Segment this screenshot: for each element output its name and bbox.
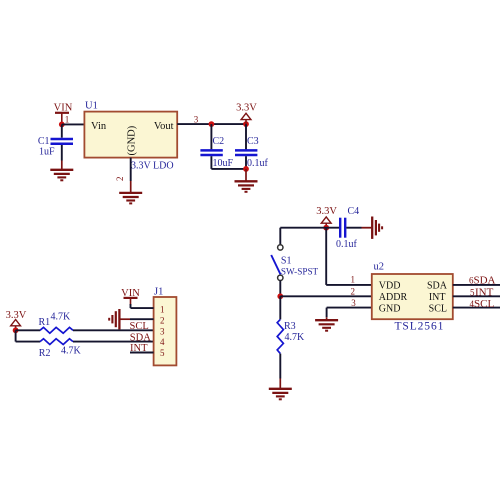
svg-text:3: 3 xyxy=(194,114,199,124)
svg-text:SDA: SDA xyxy=(427,281,448,292)
svg-text:R1: R1 xyxy=(39,317,51,328)
svg-text:Vin: Vin xyxy=(91,121,107,132)
svg-text:2: 2 xyxy=(115,177,125,182)
svg-text:3.3V: 3.3V xyxy=(236,102,257,113)
svg-text:3: 3 xyxy=(351,298,356,308)
svg-text:0.1uf: 0.1uf xyxy=(247,158,269,169)
svg-text:SCL: SCL xyxy=(474,298,494,310)
svg-text:C1: C1 xyxy=(38,136,50,147)
svg-text:SCL: SCL xyxy=(130,321,149,332)
svg-text:ADDR: ADDR xyxy=(379,292,408,303)
svg-text:SW-SPST: SW-SPST xyxy=(281,266,319,276)
svg-text:C3: C3 xyxy=(247,136,259,147)
svg-text:3.3V: 3.3V xyxy=(316,206,337,217)
svg-text:INT: INT xyxy=(475,287,494,299)
svg-text:R3: R3 xyxy=(284,321,296,332)
svg-text:2: 2 xyxy=(350,286,355,296)
svg-text:3.3V LDO: 3.3V LDO xyxy=(131,161,174,172)
svg-text:INT: INT xyxy=(429,292,446,303)
svg-text:3: 3 xyxy=(160,327,165,337)
svg-text:5: 5 xyxy=(160,348,165,358)
svg-text:2: 2 xyxy=(160,316,165,326)
svg-text:SDA: SDA xyxy=(474,275,496,287)
svg-text:R2: R2 xyxy=(39,348,51,359)
svg-text:J1: J1 xyxy=(154,287,163,298)
svg-text:GND: GND xyxy=(379,303,401,314)
svg-text:(GND): (GND) xyxy=(127,125,138,155)
svg-text:1: 1 xyxy=(160,305,165,315)
svg-text:u2: u2 xyxy=(374,261,385,272)
svg-text:U1: U1 xyxy=(85,101,98,112)
svg-text:C2: C2 xyxy=(213,136,225,147)
svg-text:VDD: VDD xyxy=(379,281,401,292)
svg-text:4.7K: 4.7K xyxy=(51,312,72,323)
svg-text:TSL2561: TSL2561 xyxy=(395,321,445,333)
svg-text:C4: C4 xyxy=(348,206,360,217)
svg-text:4.7K: 4.7K xyxy=(61,346,82,357)
svg-text:0.1uf: 0.1uf xyxy=(336,239,358,250)
svg-text:SDA: SDA xyxy=(130,332,151,343)
svg-text:Vout: Vout xyxy=(154,121,174,132)
svg-text:1: 1 xyxy=(350,274,355,284)
svg-text:10uF: 10uF xyxy=(213,158,234,169)
svg-text:4.7K: 4.7K xyxy=(285,332,306,343)
svg-text:S1: S1 xyxy=(281,255,292,266)
svg-text:4: 4 xyxy=(160,337,165,347)
svg-text:SCL: SCL xyxy=(429,303,447,314)
svg-text:1uF: 1uF xyxy=(39,147,55,158)
svg-text:1: 1 xyxy=(65,115,70,125)
